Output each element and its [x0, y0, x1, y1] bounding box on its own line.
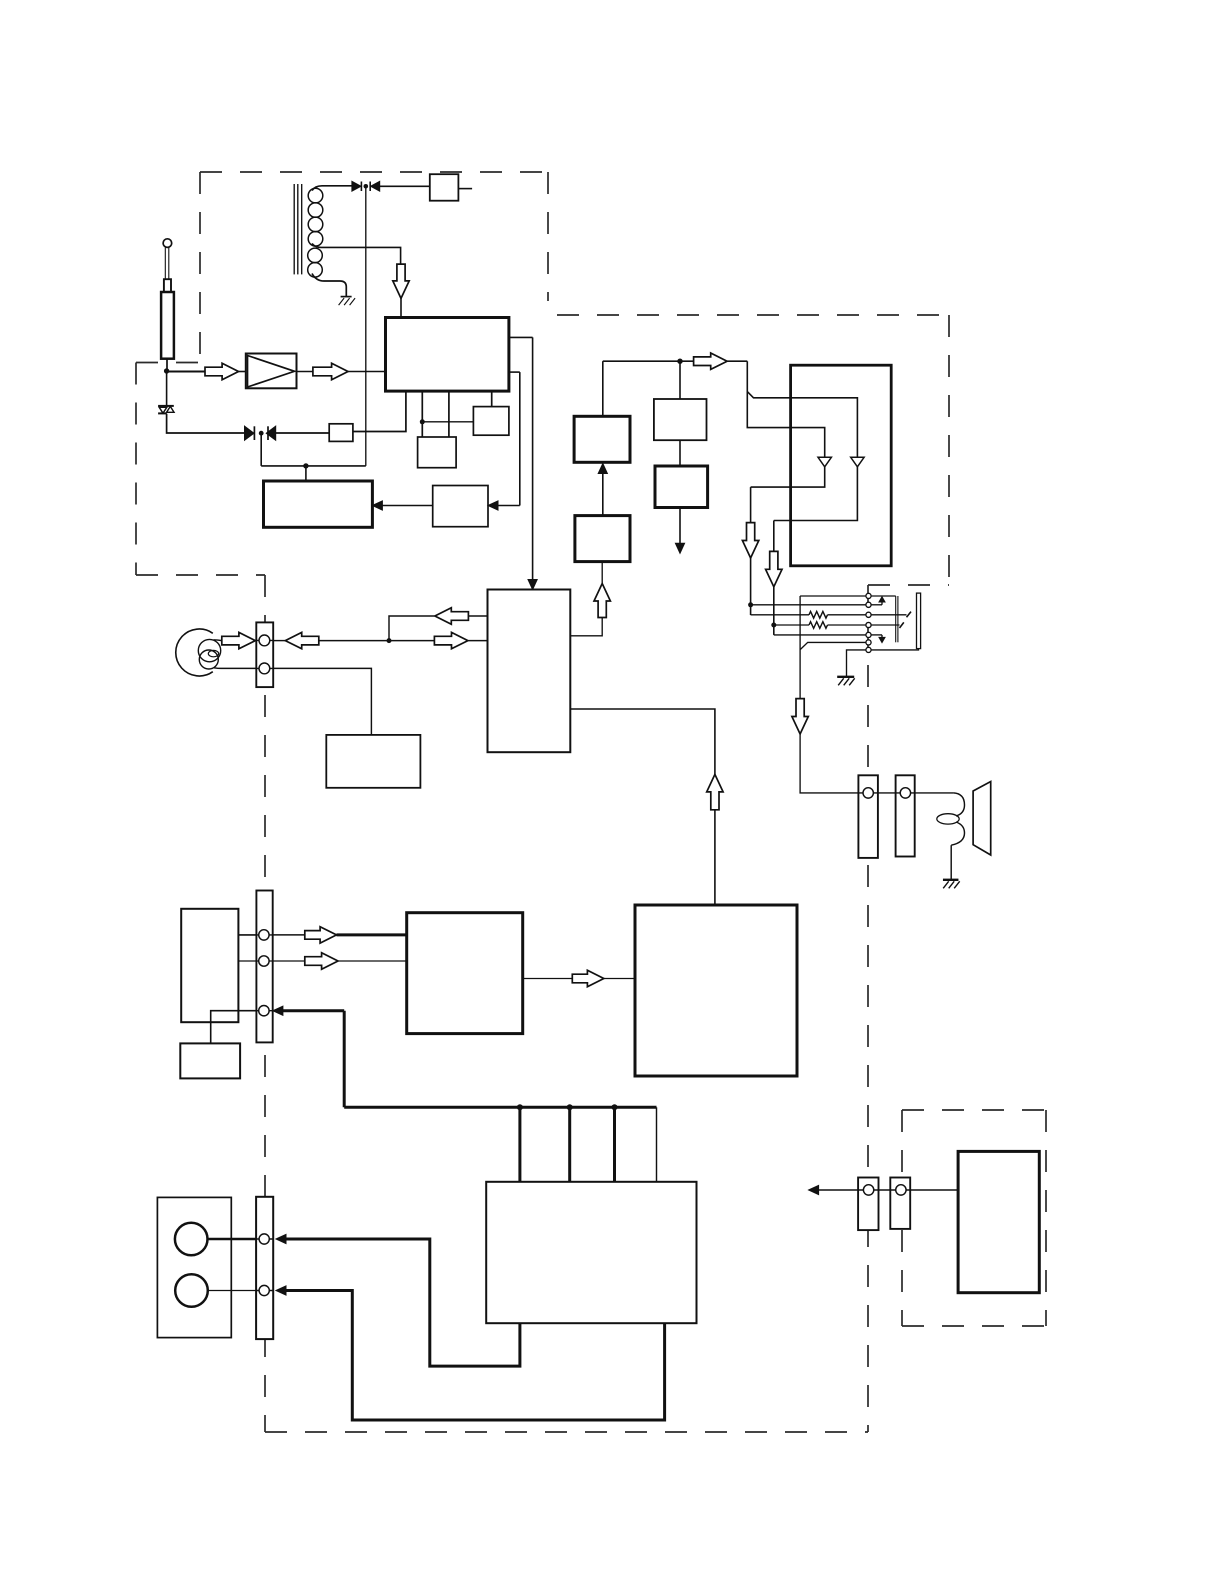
connector circle k1 [259, 930, 269, 940]
wire strip to melody box [273, 668, 371, 735]
antenna body [161, 292, 174, 359]
mini arrow down (pin5) [871, 635, 885, 643]
switch common bar [917, 593, 921, 649]
antenna tip ball [163, 239, 172, 248]
wire clamp to keying box [380, 185, 430, 187]
wire baseband right stub to arrow [570, 618, 602, 636]
wire PSU out1 to charge contact 1 [285, 1239, 520, 1366]
dashed enclosure: receiver unit (top-right), top edge [557, 314, 949, 316]
signal arrow speaker feed down [792, 699, 808, 734]
buffer triangle 1 (left, inside comparator) [818, 457, 831, 467]
speaker connector block 2 [896, 775, 915, 856]
squelch box B (thick) [575, 516, 630, 562]
wire mic through strip [256, 667, 273, 669]
header double line [896, 596, 898, 642]
dashed enclosure: main board, bottom edge [265, 1431, 868, 1433]
mic/earpiece connector strip [256, 622, 273, 687]
wire earpiece through strip [256, 639, 273, 641]
connector pin 3 [866, 612, 871, 617]
squelch box A (thick) [574, 416, 630, 462]
connector pin 5 [866, 632, 871, 637]
filter box (small) [329, 424, 353, 442]
node power tap 2 [567, 1104, 573, 1110]
AC adapter box [958, 1151, 1039, 1292]
connector circle k3 [259, 1006, 269, 1016]
transformer secondary coil (lower) [308, 248, 323, 277]
dashed enclosure: transmitter unit, right edge [547, 172, 549, 301]
wire arrow to modem box [604, 978, 635, 980]
connector circle k2 [259, 956, 269, 966]
charge connector strip [256, 1197, 273, 1339]
wire receiver bus horizontal [603, 360, 694, 362]
discriminator box (middle) [433, 486, 488, 527]
arrow AC line out [809, 1185, 859, 1194]
dashed enclosure: main board (center), left edge [264, 575, 266, 1432]
node pin row 2 junction [748, 602, 753, 607]
dashed enclosure: power adapter unit (bottom-right), top edge [902, 1109, 1046, 1111]
wire keying box stub right [458, 188, 472, 190]
adapter connector block 2 [890, 1178, 910, 1229]
wire junction down to protection diode [166, 371, 168, 405]
dashed enclosure: power adapter unit, left edge [901, 1110, 903, 1326]
node tap bus junction [303, 463, 308, 468]
wire filter box to RF/IF block bottom [353, 391, 406, 431]
baseband processor block [488, 590, 571, 753]
mini arrow up (pin2 to header) [871, 597, 885, 605]
wire VCO box top pin [491, 391, 493, 407]
keying box (top small) [430, 174, 459, 201]
wire power pillar 3 [613, 1107, 616, 1182]
arrow box D output down [675, 508, 684, 554]
arrow into charge contact 1 [276, 1234, 286, 1243]
signal arrow into earpiece connector [285, 632, 319, 648]
wire battery to strip circle3 [211, 1011, 257, 1044]
connector pin 7 [866, 647, 871, 652]
switch contact 1 [907, 612, 912, 618]
node power tap 3 [612, 1104, 618, 1110]
wire power pillar 2 [568, 1107, 571, 1182]
wire diode pair to filter box [276, 432, 330, 434]
wire buffer2 net down [773, 521, 775, 552]
transformer core [294, 184, 302, 274]
wire splitter vertical to comparator input 2 [747, 392, 824, 458]
wire speaker feed to connectors [800, 734, 858, 793]
wire power pillar 1 [518, 1107, 521, 1182]
connector circle (mic lower) [259, 663, 270, 674]
wire pin4 to switch contact [871, 624, 899, 626]
speaker connector block 1 [858, 775, 878, 858]
connector pin 6 [866, 640, 871, 645]
wire PSU out2 to charge contact 2 [285, 1291, 665, 1421]
wire arrow to CPU (thick) [337, 933, 407, 936]
crystal box (below RF/IF) [418, 437, 457, 468]
wire diode center down to tap bus [260, 433, 262, 466]
wire k1 through strip [256, 934, 272, 936]
wire mic line [319, 640, 435, 642]
ground (speaker) [943, 880, 960, 889]
charge terminal circle 2 [175, 1274, 208, 1307]
signal arrow up from modem [707, 774, 723, 809]
arrow into charge contact 2 [276, 1286, 286, 1295]
charging terminals box [157, 1197, 231, 1337]
wire pin7 to switch bar bottom [871, 649, 918, 650]
dashed enclosure: power adapter unit, right edge [1045, 1110, 1047, 1326]
arrow into discriminator from RF/IF stub [488, 372, 520, 510]
wire c2 through strip [256, 1290, 273, 1292]
wire strip to earpiece arrow tip [273, 640, 285, 642]
wire coil bottom lead to ground [312, 274, 346, 297]
dashed enclosure: transmitter unit, left edge [199, 172, 201, 364]
antenna collar [164, 279, 171, 292]
wire buffer1 net down [750, 487, 752, 522]
wire earpiece line bend [389, 616, 434, 641]
signal arrow receiver bus [694, 353, 728, 369]
signal arrow from mic connector [222, 632, 256, 648]
dashed enclosure: antenna matching unit (left), top edge [136, 362, 200, 364]
keypad connector strip [256, 891, 272, 1043]
wire pin row 1 [800, 595, 896, 597]
wire pin row 6 with jog [800, 642, 868, 649]
earpiece symbol [176, 629, 222, 676]
wire pin row 7 to ground branch [847, 650, 869, 676]
melody box [326, 735, 420, 788]
buffer triangle 2 (right, inside comparator) [851, 457, 864, 467]
signal arrow control bus 1 [305, 927, 337, 943]
wire power pillar 4 (thin) [656, 1107, 658, 1182]
wire coil top lead [312, 186, 352, 191]
connector circle c2 [259, 1285, 269, 1295]
detector box D (thick) [655, 466, 708, 508]
wire pin row 3 left [751, 614, 809, 616]
wire k2 through strip [256, 960, 272, 962]
wire keypad row1 to strip [238, 934, 256, 936]
wire terminal1 to strip [208, 1238, 257, 1241]
adapter connector circle 2 [896, 1185, 906, 1195]
wire arrow to pin row 4 [773, 586, 775, 635]
wire power bus down [343, 1011, 346, 1108]
wire pin row 4 left [774, 624, 809, 626]
signal arrow into baseband (audio) [434, 632, 468, 648]
power supply box (bottom) [486, 1182, 696, 1323]
wire pin row 2 [751, 604, 869, 606]
dashed enclosure: receiver unit, bottom edge [868, 584, 949, 586]
wire strip k2 to arrow [273, 960, 305, 962]
wire arrow to pin row 2 [750, 558, 752, 615]
back-to-back diode pair (coil clamp) [352, 182, 380, 192]
node earpiece tee [387, 638, 392, 643]
wire c1 through strip [256, 1238, 273, 1240]
wire pin row 4 right [828, 624, 869, 626]
wire baseband right stub to modem arrow [570, 709, 715, 774]
node antenna feed junction [164, 368, 169, 373]
dashed enclosure: receiver unit, right edge [948, 315, 950, 585]
signal arrow down (net 1) [742, 523, 758, 558]
dashed enclosure: antenna matching unit, bottom edge [136, 574, 265, 576]
antenna whip (thin section) [165, 248, 169, 280]
wire through speaker connectors [858, 792, 953, 794]
wire transformer tap to down arrow [312, 244, 401, 265]
wire arrow2 to CPU [338, 960, 407, 962]
wire speaker feed long vertical [799, 596, 801, 699]
speaker voice coil [937, 793, 965, 845]
adapter connector circle 1 [863, 1185, 873, 1195]
wire arrow tail to modem box [714, 810, 716, 905]
wire tap bus horizontal [261, 465, 366, 467]
comparator block (tall thick) [791, 365, 892, 566]
wire voice coil to ground [950, 845, 952, 879]
connector pin 4 [866, 622, 871, 627]
node crystal pin junction [420, 419, 425, 424]
wire box C to box D [679, 440, 681, 466]
wire k3 through strip [256, 1010, 272, 1012]
ground (transformer) [339, 297, 356, 306]
wire terminal2 to strip [208, 1290, 256, 1292]
signal arrow into RF/IF block [313, 363, 348, 379]
wire RF/IF pin to crystal box B [448, 391, 450, 437]
wire arrow to RF/IF block top [400, 298, 402, 317]
connector pin 1 [866, 593, 871, 598]
signal arrow down (net 2) [766, 551, 782, 586]
speaker connector circle 1 [863, 788, 873, 798]
dashed enclosure: antenna matching unit, left edge [135, 363, 137, 576]
node power tap 1 [517, 1104, 523, 1110]
TX back-to-back diode pair [245, 426, 276, 440]
wire antenna junction to RX arrow [167, 371, 205, 373]
signal arrow transformer tap down [393, 264, 409, 298]
wire CPU to modem arrow [523, 978, 573, 980]
CPU box (handset) [407, 913, 523, 1034]
signal arrow CPU to modem [572, 970, 604, 986]
dashed enclosure: power adapter unit, bottom edge [902, 1325, 1046, 1327]
wire protection diode to TX diode pair [167, 414, 245, 433]
charge terminal circle 1 [175, 1223, 208, 1256]
keypad box [181, 909, 238, 1022]
speaker cone [973, 782, 991, 856]
wire strip k1 to arrow [273, 934, 305, 936]
adapter connector block 1 [858, 1178, 878, 1231]
arrow into strip k3 (power) [273, 1006, 344, 1015]
wire arrow to splitter corner [727, 360, 747, 362]
node receiver bus junction [677, 359, 682, 364]
dashed enclosure: transmitter unit (top-left), top edge [200, 171, 548, 173]
wire splitter vertical with jog to comparator input 1 [747, 361, 857, 457]
signal arrow into RF amplifier [205, 363, 239, 379]
wire arrow to RF/IF block [348, 371, 386, 373]
transformer primary coil (upper) [308, 188, 323, 246]
wire box B bottom to up-arrow [601, 562, 603, 584]
dashed enclosure: main board, right edge [867, 585, 869, 1432]
speaker connector circle 2 [900, 788, 910, 798]
modulator block (thick) [264, 481, 373, 527]
wire RF/IF stub1 to baseband arrow [509, 337, 533, 580]
wire junction to VCO box [422, 421, 473, 423]
wire earpiece line from box (left arrow) [468, 615, 487, 617]
node coil clamp center [364, 184, 369, 189]
wire pin row 5 [774, 634, 869, 636]
wire RF/IF pin to crystal box A [421, 391, 423, 437]
wire junction down into modulator box [305, 466, 307, 481]
VCO box [473, 407, 509, 436]
node TX diode pair center [259, 431, 264, 436]
signal arrow up into box B [594, 584, 610, 618]
resistor R (row 3) [809, 612, 828, 619]
connector circle c1 [259, 1234, 269, 1244]
wire buffer2 out leftward [774, 467, 858, 521]
wire pin3 to switch contact [871, 614, 906, 616]
wire box A top pin up [602, 361, 604, 416]
ground (pin row 7) [837, 677, 855, 686]
connector pin 2 [866, 602, 871, 607]
wire junction down to box C [679, 361, 681, 399]
wire RF amplifier to arrow [297, 371, 313, 373]
switch contact 2 [900, 622, 904, 628]
node pin row 4 junction [771, 623, 776, 628]
wire antenna feed down [166, 359, 168, 371]
wire clamp node long vertical [365, 189, 367, 466]
battery box (small) [180, 1043, 240, 1078]
connector circle (earpiece) [259, 635, 270, 646]
arrow into baseband processor top [528, 580, 537, 590]
wire mic lower line to strip [221, 667, 256, 669]
wire buffer1 out leftward [751, 467, 825, 487]
arrow box B to box A [598, 464, 607, 516]
RF amplifier block (triangle) [246, 354, 297, 389]
signal arrow toward earpiece [435, 608, 469, 624]
RF/IF converter block (large) [386, 318, 509, 392]
wire arrow to baseband box [468, 640, 487, 642]
signal arrow control bus 2 [305, 953, 338, 969]
detector box C [654, 399, 707, 440]
wire keypad row2 to strip [238, 960, 256, 962]
protection diode (bidirectional) [158, 406, 174, 414]
resistor R (row 4) [809, 622, 828, 629]
wire arrow to RF amplifier [239, 371, 246, 373]
arrow discriminator to modulator [372, 501, 432, 510]
wire through adapter connectors [858, 1189, 958, 1191]
modem box [635, 905, 797, 1076]
wire pin row 3 right [828, 614, 869, 616]
wire power bus horizontal [344, 1106, 656, 1109]
